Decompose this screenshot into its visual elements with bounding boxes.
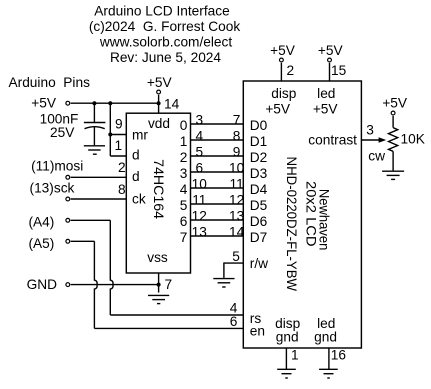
svg-text:www.solorb.com/elect: www.solorb.com/elect — [99, 34, 233, 49]
svg-text:+5V: +5V — [318, 43, 344, 58]
svg-text:9: 9 — [233, 144, 241, 159]
svg-text:NHD-0220DZ-FL-YBW: NHD-0220DZ-FL-YBW — [284, 157, 299, 292]
wire vss pin 7 — [158, 273, 160, 293]
svg-text:16: 16 — [331, 347, 347, 362]
node (A4) — [28, 215, 69, 230]
svg-text:1: 1 — [114, 138, 122, 153]
wire pot bottom — [392, 151, 394, 171]
svg-text:6: 6 — [180, 214, 188, 229]
svg-text:11: 11 — [192, 192, 206, 207]
wire A5 horizontal — [71, 240, 95, 242]
node GND — [27, 277, 70, 292]
svg-text:4: 4 — [180, 182, 188, 197]
svg-text:Arduino LCD Interface: Arduino LCD Interface — [94, 4, 229, 19]
svg-text:gnd: gnd — [314, 330, 337, 345]
wire D1 — [191, 139, 244, 141]
svg-text:14: 14 — [164, 96, 180, 111]
ground vss — [148, 295, 169, 303]
svg-text:5: 5 — [180, 198, 188, 213]
svg-text:led: led — [317, 316, 335, 331]
svg-text:+5V: +5V — [270, 43, 296, 58]
svg-text:D1: D1 — [250, 134, 267, 149]
svg-text:8: 8 — [233, 128, 241, 143]
svg-text:7: 7 — [233, 112, 241, 127]
node (A5) — [28, 236, 69, 251]
svg-text:(A4): (A4) — [28, 215, 54, 230]
wire contrast wiper — [361, 139, 379, 141]
wire +5V rail — [71, 102, 159, 104]
ground r/w — [213, 279, 234, 287]
junction C1/rail — [92, 101, 96, 105]
node (13)sck — [30, 181, 75, 201]
svg-text:11: 11 — [229, 176, 243, 191]
wire A4 vertical with hop — [110, 220, 113, 315]
node +5V pin15 — [318, 43, 344, 62]
wiper arrowhead — [379, 137, 387, 143]
svg-text:13: 13 — [229, 208, 245, 223]
wire r/w to ground — [224, 263, 243, 278]
svg-text:contrast: contrast — [308, 132, 357, 147]
potentiometer R1 10K — [368, 128, 425, 164]
wire D5 — [191, 203, 244, 205]
wire D7 — [191, 235, 244, 237]
svg-text:4: 4 — [195, 128, 203, 143]
svg-text:3: 3 — [366, 122, 374, 137]
svg-text:3: 3 — [180, 166, 188, 181]
svg-text:en: en — [250, 324, 265, 339]
svg-text:10: 10 — [192, 176, 208, 191]
svg-text:1: 1 — [180, 134, 188, 149]
svg-text:disp: disp — [275, 316, 300, 331]
svg-text:D3: D3 — [250, 166, 268, 181]
svg-text:20x2 LCD: 20x2 LCD — [304, 181, 319, 247]
svg-text:vdd: vdd — [148, 116, 170, 131]
svg-text:5: 5 — [232, 249, 240, 264]
junction mr net — [108, 133, 112, 137]
ground pot — [382, 171, 404, 179]
junction GND/vss — [157, 283, 161, 287]
wire pin 1 stub — [110, 155, 126, 157]
svg-text:14: 14 — [229, 224, 245, 239]
svg-text:2: 2 — [180, 150, 188, 165]
wire D6 — [191, 219, 244, 221]
svg-text:disp: disp — [271, 86, 296, 101]
svg-text:12: 12 — [229, 192, 244, 207]
svg-text:10: 10 — [229, 160, 245, 175]
svg-text:6: 6 — [195, 160, 203, 175]
wire mr/d net vertical — [109, 103, 111, 156]
capacitor C1 100nF 25V — [40, 103, 106, 145]
svg-text:D0: D0 — [250, 118, 268, 133]
wire disp gnd pin 1 — [285, 348, 287, 369]
svg-text:D5: D5 — [250, 198, 268, 213]
wire GND rail — [71, 284, 159, 286]
svg-text:5: 5 — [195, 144, 203, 159]
svg-text:r/w: r/w — [250, 256, 268, 271]
svg-text:13: 13 — [192, 224, 208, 239]
svg-text:vss: vss — [147, 250, 168, 265]
svg-text:gnd: gnd — [276, 330, 299, 345]
wire A4 to rs pin 4 — [110, 314, 243, 316]
svg-text:+5V: +5V — [265, 101, 291, 116]
node +5V pin14 — [147, 75, 173, 94]
ground C1 — [84, 146, 105, 154]
junction mr-net/rail — [108, 101, 112, 105]
wire A4 horizontal — [71, 219, 111, 221]
svg-text:D7: D7 — [250, 230, 267, 245]
wire pin 2 — [280, 63, 282, 81]
wire sck to pin 8 — [71, 198, 127, 200]
svg-text:8: 8 — [118, 182, 126, 197]
shift register U1 74HC164 — [126, 113, 190, 273]
svg-text:Rev: June 5, 2024: Rev: June 5, 2024 — [110, 50, 221, 65]
svg-text:9: 9 — [115, 117, 123, 132]
svg-text:D6: D6 — [250, 214, 268, 229]
svg-text:7: 7 — [165, 277, 173, 292]
svg-text:ck: ck — [132, 192, 146, 207]
wire pin 15 — [329, 63, 331, 81]
svg-text:(A5): (A5) — [28, 236, 54, 251]
svg-text:(c)2024 G. Forrest Cook: (c)2024 G. Forrest Cook — [89, 19, 241, 34]
svg-text:d: d — [132, 169, 140, 184]
svg-text:D2: D2 — [250, 150, 267, 165]
svg-text:GND: GND — [27, 277, 58, 292]
wire mosi to pin 2 — [71, 176, 127, 178]
node +5V pot — [382, 96, 408, 115]
ground led gnd — [319, 369, 338, 378]
wire D3 — [191, 171, 244, 173]
wire pot top — [392, 116, 394, 128]
svg-text:74HC164: 74HC164 — [151, 159, 166, 219]
svg-text:D4: D4 — [250, 182, 268, 197]
svg-text:10K: 10K — [401, 132, 425, 147]
svg-text:2: 2 — [286, 63, 294, 78]
wire led gnd pin 16 — [328, 348, 330, 369]
svg-text:25V: 25V — [50, 125, 75, 140]
svg-text:(13)sck: (13)sck — [30, 181, 75, 196]
svg-text:Arduino Pins: Arduino Pins — [9, 75, 91, 90]
junction pin14/rail — [157, 101, 161, 105]
title block — [89, 4, 241, 65]
svg-text:1: 1 — [291, 347, 299, 362]
wire D4 — [191, 187, 244, 189]
svg-text:+5V: +5V — [147, 75, 173, 90]
svg-text:(11)mosi: (11)mosi — [31, 159, 83, 174]
svg-text:led: led — [317, 86, 335, 101]
wire D0 — [191, 123, 244, 125]
wire D2 — [191, 155, 244, 157]
svg-text:mr: mr — [132, 128, 148, 143]
wire A5 vertical with hop — [94, 241, 97, 328]
wire pin 14 — [158, 95, 160, 113]
svg-text:+5V: +5V — [31, 95, 57, 110]
svg-text:+5V: +5V — [313, 101, 339, 116]
node +5V pin2 — [270, 43, 296, 62]
svg-text:Newhaven: Newhaven — [317, 189, 332, 251]
LCD module NHD-0220DZ-FL-YBW — [243, 81, 361, 348]
svg-text:12: 12 — [192, 208, 207, 223]
ground disp gnd — [277, 369, 296, 378]
svg-text:cw: cw — [368, 148, 385, 163]
svg-text:6: 6 — [230, 314, 238, 329]
svg-text:+5V: +5V — [382, 96, 408, 111]
svg-text:2: 2 — [118, 160, 126, 175]
node (11)mosi — [31, 159, 83, 180]
wire pin 9 stub — [110, 134, 126, 136]
svg-text:15: 15 — [331, 63, 347, 78]
svg-text:d: d — [132, 148, 140, 163]
wire A5 to en pin 6 — [94, 327, 243, 329]
svg-text:7: 7 — [180, 230, 188, 245]
svg-text:3: 3 — [195, 112, 203, 127]
node +5V Arduino pin — [31, 95, 69, 110]
svg-text:0: 0 — [180, 118, 188, 133]
